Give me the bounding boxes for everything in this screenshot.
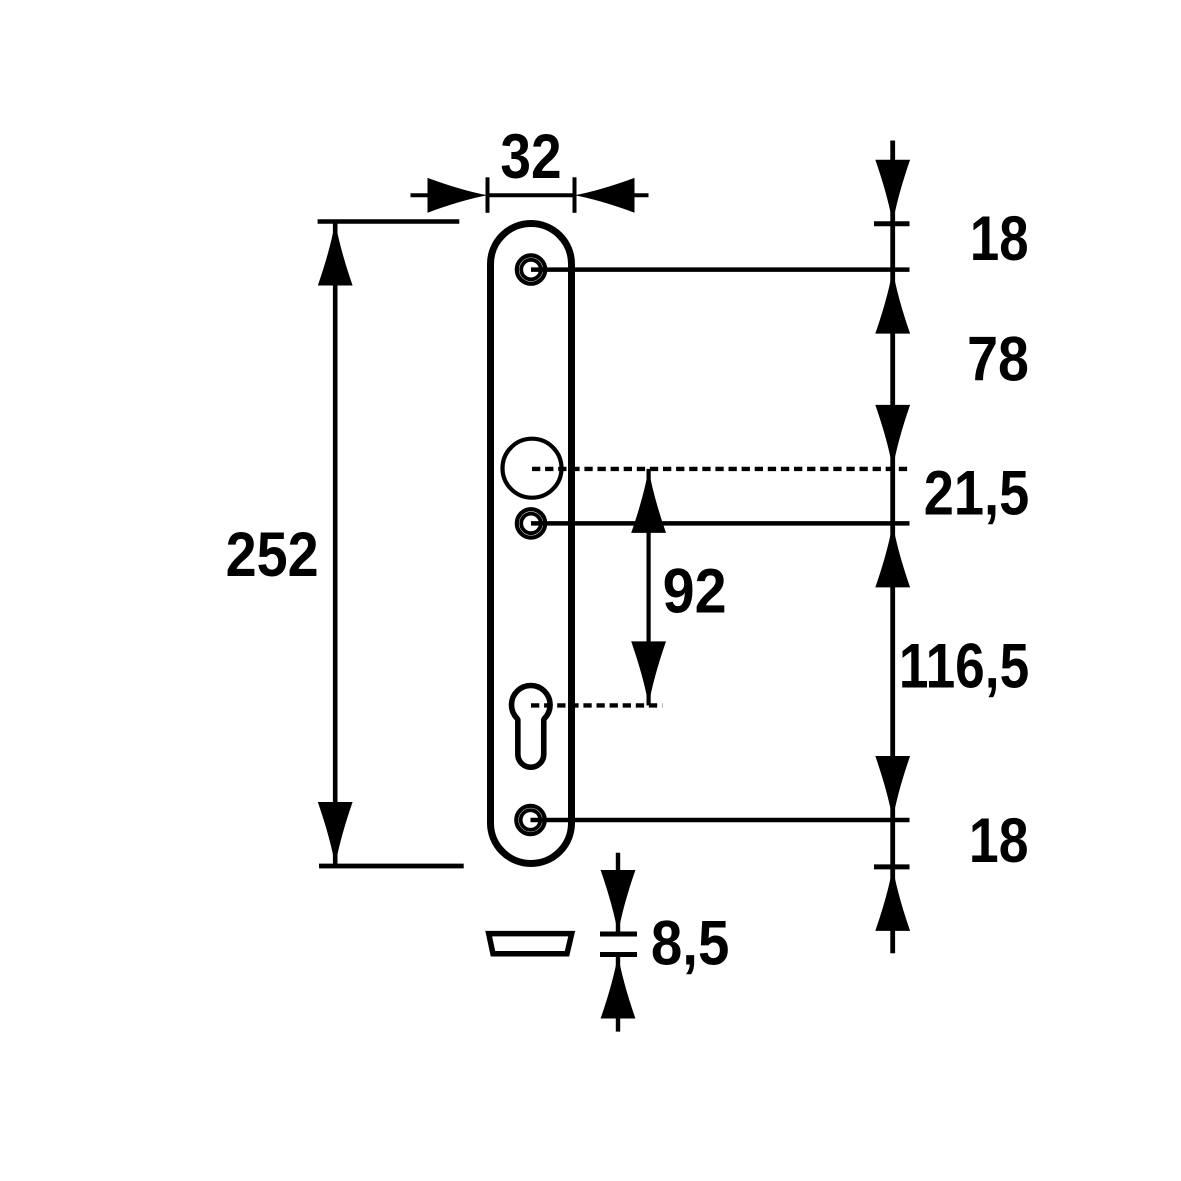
arrow pointing right at left edge <box>428 178 488 213</box>
screw hole top <box>517 255 545 283</box>
arrow down at plate top <box>875 160 910 224</box>
arrow up at plate bottom level <box>875 867 910 931</box>
dimension 252 (overall height, left side) <box>226 222 464 867</box>
dim line <box>333 222 338 867</box>
upper line <box>616 853 620 934</box>
leader line from top screw hole to right chain <box>531 267 910 272</box>
bottom tick <box>600 952 637 957</box>
svg-text:8,5: 8,5 <box>651 909 730 979</box>
screw hole bottom <box>516 806 544 834</box>
bottom extension line <box>319 864 464 869</box>
dim line between ticks <box>488 193 575 197</box>
arrow down at dotted keyhole line <box>631 641 666 705</box>
arrow up at dotted handle line <box>631 469 666 533</box>
arrow up at middle hole level <box>875 523 910 587</box>
leader line from middle screw hole to right chain <box>531 521 910 526</box>
top tick (plate top level) <box>874 221 910 226</box>
svg-text:78: 78 <box>967 324 1029 394</box>
dimension 8,5 (plate thickness, side view) <box>600 853 729 1032</box>
svg-text:252: 252 <box>226 520 319 590</box>
dimension 32 (width) <box>411 122 649 213</box>
handle hole (large circle) <box>503 439 562 498</box>
dimension 92 (handle to keyhole) <box>631 469 726 706</box>
chain vertical line <box>890 141 895 954</box>
top extension line <box>318 219 460 224</box>
lower line <box>616 955 620 1032</box>
svg-text:21,5: 21,5 <box>924 459 1029 529</box>
bottom tick (plate bottom level) <box>874 864 910 869</box>
left tail <box>411 193 432 197</box>
svg-text:116,5: 116,5 <box>899 632 1029 702</box>
dim line <box>646 469 650 706</box>
side view profile (trapezoid) <box>489 934 572 954</box>
right tick <box>573 177 577 213</box>
right dimension chain <box>874 141 1029 954</box>
dotted centre line of handle hole <box>532 467 909 471</box>
arrow up at top <box>318 222 353 286</box>
arrow up at side view bottom <box>601 955 636 1019</box>
svg-text:18: 18 <box>970 204 1029 274</box>
svg-text:32: 32 <box>500 122 561 192</box>
arrow up at top hole level <box>875 270 910 334</box>
arrow down at side view top <box>601 870 636 934</box>
dotted centre line of keyhole <box>531 703 662 707</box>
leader line from bottom screw hole to right chain <box>531 818 910 823</box>
svg-text:18: 18 <box>969 806 1029 876</box>
arrow pointing left at right edge <box>575 178 635 213</box>
svg-text:92: 92 <box>663 556 727 626</box>
screw hole middle <box>517 509 545 537</box>
top tick <box>600 932 637 937</box>
arrow down at bottom hole level <box>875 756 910 820</box>
right tail <box>631 193 649 197</box>
left tick <box>486 177 490 213</box>
euro profile cylinder keyhole <box>511 686 550 768</box>
arrow down at bottom <box>318 802 353 866</box>
plate outline (stadium shaped backplate) <box>491 224 572 864</box>
arrow down at handle centre level <box>875 405 910 469</box>
